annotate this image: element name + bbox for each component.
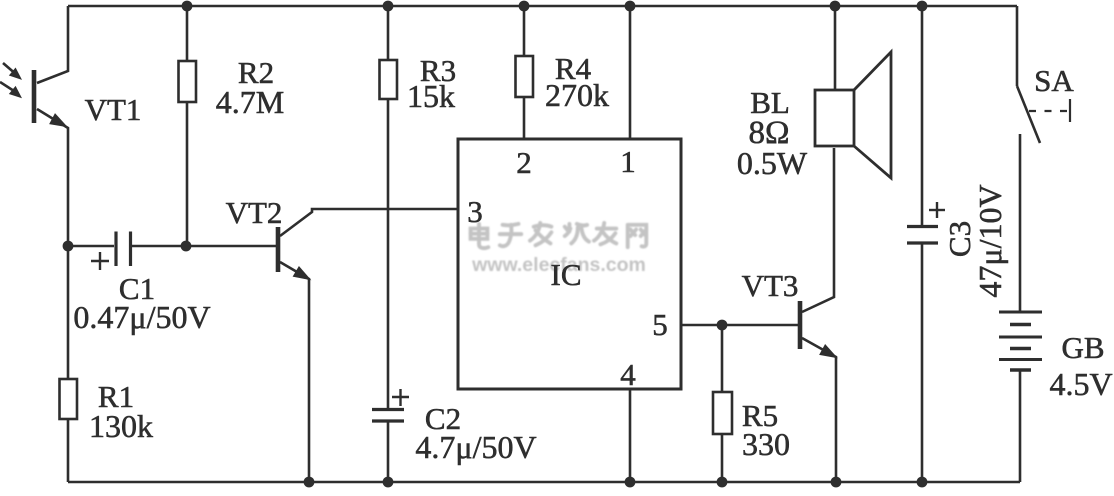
node speaker top <box>830 1 841 12</box>
svg-text:4.7μ/50V: 4.7μ/50V <box>415 429 536 465</box>
wire VT2 collector to IC pin3 <box>280 209 458 236</box>
svg-text:130k: 130k <box>89 408 153 444</box>
battery GB <box>999 312 1042 370</box>
capacitor C1 <box>116 232 131 267</box>
node VT3 emitter ground <box>831 477 842 488</box>
svg-text:2: 2 <box>516 145 532 180</box>
wire C1 to VT2 base <box>132 245 276 248</box>
svg-text:VT3: VT3 <box>742 268 799 303</box>
resistor R4 <box>516 56 534 97</box>
wire VT1 collector to top rail <box>37 6 68 83</box>
wire speaker top lead <box>834 6 837 90</box>
wire R3 to C2 <box>387 99 390 409</box>
wire R3 top lead <box>387 6 390 60</box>
wire R1 bottom lead <box>67 419 70 482</box>
wire bottom ground rail <box>68 481 1020 484</box>
resistor R2 <box>179 61 197 102</box>
switch SA blade <box>1017 86 1040 143</box>
transistor VT2 <box>276 227 281 272</box>
svg-text:4.7M: 4.7M <box>216 84 284 120</box>
wire C3 bottom lead <box>921 243 924 482</box>
wire VT1 emitter down to C1 node <box>37 109 68 246</box>
wire IC pin1 to top rail <box>629 6 632 139</box>
svg-text:15k: 15k <box>407 78 455 114</box>
C2 plus sign <box>392 389 409 406</box>
node C1 right <box>181 241 192 252</box>
wire VT3 emitter to ground <box>802 338 836 482</box>
svg-text:0.5W: 0.5W <box>737 145 808 181</box>
wire VT2 emitter down to ground <box>280 262 309 482</box>
node pin1 top <box>625 1 636 12</box>
node R5 ground <box>717 477 728 488</box>
transistor VT1 <box>32 70 37 123</box>
light arrow 2 <box>0 82 21 97</box>
svg-text:IC: IC <box>551 257 582 292</box>
wire battery to bottom rail <box>1019 370 1022 482</box>
svg-text:0.47μ/50V: 0.47μ/50V <box>73 299 210 335</box>
wire top rail to switch SA <box>1016 6 1019 86</box>
C3 plus sign <box>929 202 945 218</box>
resistor R1 <box>60 379 78 419</box>
switch SA pushbutton dashed link <box>1029 99 1070 122</box>
wire VT3 collector to speaker <box>802 148 834 312</box>
wire switch SA to battery <box>1019 134 1022 312</box>
transistor VT3 <box>798 301 803 349</box>
transistor VT1 emitter arrow <box>50 114 67 127</box>
svg-text:47μ/10V: 47μ/10V <box>972 184 1008 297</box>
transistor VT3 emitter arrow <box>820 345 837 358</box>
svg-text:4.5V: 4.5V <box>1049 366 1112 402</box>
wire R2 top lead <box>186 6 189 61</box>
resistor R3 <box>380 60 398 99</box>
node C3 ground <box>917 477 928 488</box>
wire R5 bottom lead <box>721 434 724 482</box>
svg-text:330: 330 <box>742 426 790 462</box>
watermark 电子发烧友网 <box>471 223 647 248</box>
svg-text:GB: GB <box>1061 330 1104 365</box>
wire C3 top lead <box>921 6 924 226</box>
node R3 top <box>383 1 394 12</box>
svg-text:VT1: VT1 <box>85 92 142 127</box>
svg-text:5: 5 <box>652 307 668 342</box>
wire R5 top lead <box>721 325 724 392</box>
node C2 ground <box>383 477 394 488</box>
wire R4 to IC pin2 <box>523 97 526 139</box>
wire R1 top lead <box>67 246 70 379</box>
svg-text:1: 1 <box>620 144 636 179</box>
transistor VT2 emitter arrow <box>293 267 310 280</box>
svg-text:270k: 270k <box>545 77 609 113</box>
node R2 top <box>182 1 193 12</box>
wire IC pin4 to ground <box>629 389 632 482</box>
node pin4 ground <box>625 477 636 488</box>
resistor R5 <box>713 392 732 434</box>
svg-text:SA: SA <box>1034 63 1074 98</box>
wire top supply rail <box>68 5 1017 8</box>
node R5 top <box>717 320 728 331</box>
svg-text:VT2: VT2 <box>226 195 283 230</box>
capacitor C3 <box>907 227 938 244</box>
speaker BL <box>815 52 891 178</box>
node C1 left <box>63 241 74 252</box>
svg-text:3: 3 <box>467 194 483 229</box>
wire R2 bottom lead <box>186 102 189 246</box>
wire C2 bottom lead <box>387 421 390 482</box>
wire R4 top lead <box>523 6 526 56</box>
node R4 top <box>519 1 530 12</box>
op-amp U1 IC box <box>458 139 681 389</box>
node C3 top <box>917 1 928 12</box>
wire IC pin5 to VT3 base <box>681 324 798 327</box>
capacitor C2 <box>372 410 404 422</box>
light arrow 1 <box>3 63 21 79</box>
svg-text:4: 4 <box>620 357 636 392</box>
C1 plus sign <box>91 252 109 270</box>
node VT2 emitter ground <box>304 477 315 488</box>
wire C1 left lead <box>68 245 114 248</box>
